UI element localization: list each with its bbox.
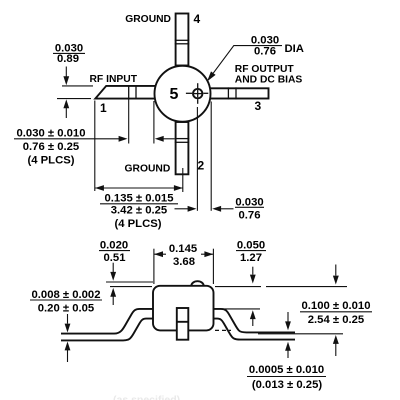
lead pin 3 side view (right gull-wing, upper surface): [213, 309, 295, 333]
svg-text:3.68: 3.68: [173, 256, 195, 268]
svg-text:0.51: 0.51: [104, 252, 126, 264]
svg-text:2.54 ± 0.25: 2.54 ± 0.25: [308, 314, 364, 326]
svg-text:0.0005 ± 0.010: 0.0005 ± 0.010: [249, 364, 324, 376]
svg-text:0.89: 0.89: [57, 53, 79, 65]
lead pin 3 side view (lower surface): [213, 319, 295, 340]
index bump on body top: [191, 281, 203, 286]
svg-text:1.27: 1.27: [240, 252, 262, 264]
dimension 0.030/0.89 (lead thickness, top left): [53, 42, 93, 118]
svg-text:0.145: 0.145: [169, 243, 197, 255]
dimension 0.020/0.51 (bump height): [99, 239, 153, 305]
svg-text:0.76 ± 0.25: 0.76 ± 0.25: [23, 141, 79, 153]
svg-text:1: 1: [100, 101, 107, 115]
package body (side view): [153, 286, 214, 331]
svg-text:0.008 ± 0.002: 0.008 ± 0.002: [31, 289, 100, 301]
svg-text:AND DC BIAS: AND DC BIAS: [235, 74, 303, 85]
dimension 0.135±0.015 / 3.42±0.25 (4 PLCS) lead spacing: [95, 101, 183, 231]
svg-text:0.76: 0.76: [239, 210, 261, 222]
lead pin 2 (bottom ground lead): [175, 122, 189, 174]
dimension 0.030±0.010 / 0.76±0.25 (4 PLCS) lead width: [14, 99, 175, 167]
svg-text:0.76: 0.76: [254, 46, 276, 58]
svg-text:0.135 ± 0.015: 0.135 ± 0.015: [104, 193, 173, 205]
callout 0.030/0.76 DIA (center hole diameter): [207, 34, 304, 81]
svg-text:(as specified): (as specified): [113, 394, 180, 400]
svg-text:0.20 ± 0.05: 0.20 ± 0.05: [38, 302, 94, 314]
lead pin 4 (top ground lead): [175, 14, 189, 66]
dimension 0.0005±0.010 (standoff): [247, 312, 326, 391]
svg-text:(0.013 ± 0.25): (0.013 ± 0.25): [252, 379, 322, 391]
svg-text:(4 PLCS): (4 PLCS): [27, 155, 74, 167]
svg-text:GROUND: GROUND: [125, 164, 171, 175]
svg-text:DIA: DIA: [285, 43, 304, 55]
dimension 0.100±0.010 / 2.54±0.25 (overall height): [258, 265, 372, 357]
svg-text:0.030: 0.030: [235, 196, 263, 208]
svg-text:2: 2: [198, 159, 205, 173]
svg-text:3: 3: [255, 99, 262, 113]
package body circle (pin 5): [155, 66, 211, 122]
hidden body edge (dashed, right of body bottom corner): [215, 329, 231, 331]
svg-text:0.100 ± 0.010: 0.100 ± 0.010: [301, 300, 370, 312]
svg-text:RF INPUT: RF INPUT: [90, 74, 138, 85]
svg-text:0.020: 0.020: [100, 239, 128, 251]
dimension 0.050/1.27 (body top to lead top): [215, 239, 347, 326]
lead pin 1 side view (lower surface): [61, 319, 154, 341]
center hole with crosshair: [186, 83, 208, 104]
svg-text:3.42 ± 0.25: 3.42 ± 0.25: [111, 204, 167, 216]
svg-text:(4 PLCS): (4 PLCS): [114, 218, 161, 230]
dimension 0.030/0.76 (hole offset, bottom right of top view): [175, 102, 265, 222]
svg-text:5: 5: [170, 86, 179, 103]
svg-text:0.030 ± 0.010: 0.030 ± 0.010: [16, 128, 85, 140]
lead pin 1 side view (left gull-wing, upper surface): [61, 309, 154, 334]
svg-text:0.050: 0.050: [237, 239, 265, 251]
dimension 0.008±0.002 / 0.20±0.05 (lead thickness): [30, 289, 102, 362]
center mounting pin (pin 5 stud, side view): [177, 308, 189, 340]
svg-text:GROUND: GROUND: [125, 14, 171, 25]
dimension 0.145/3.68 (body width): [154, 243, 214, 284]
lead pin 3 (RF output lead): [210, 87, 269, 99]
lead pin 1 (RF input lead, chamfered left end): [95, 86, 157, 99]
svg-text:4: 4: [194, 12, 201, 26]
